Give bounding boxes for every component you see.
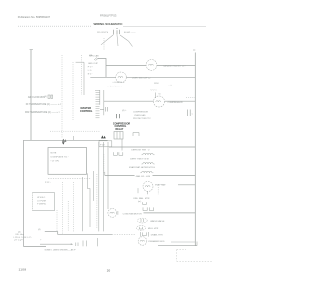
dashed sensor wire x62	[61, 55, 63, 138]
terminal block box	[99, 141, 112, 147]
wire below fan circle	[147, 191, 149, 194]
defrost section top line y147	[109, 146, 195, 148]
svg-text:RELAY: RELAY	[116, 128, 124, 131]
lamp L1 circle	[146, 60, 157, 71]
left drop wire x23.4	[22, 140, 24, 246]
dispenser box	[33, 193, 55, 211]
small cup mark	[143, 202, 147, 204]
svg-text:ICEMAKER MOD: ICEMAKER MOD	[148, 240, 165, 243]
svg-text:LIGHT SWITCH ·L2: LIGHT SWITCH ·L2	[132, 77, 151, 79]
mullion heater symbol	[136, 226, 145, 231]
wire y242 stub to rail	[171, 241, 195, 243]
wire line2 y77.3 left segment	[90, 76, 115, 78]
double cup marks	[143, 207, 154, 210]
right rail top tick	[193, 49, 195, 51]
control board pin ticks	[96, 93, 100, 118]
svg-text:FRE· FAN · MTR: FRE· FAN · MTR	[134, 197, 150, 200]
svg-text:P·12 ›: P·12 ›	[45, 182, 51, 184]
wire bundle solid x98.8	[98, 142, 100, 231]
tick left of fan	[137, 188, 139, 193]
wire x104.8	[104, 172, 106, 176]
evaporator heater coil	[140, 171, 153, 173]
svg-text:LO PUSH: LO PUSH	[37, 200, 46, 202]
user interface box	[48, 148, 87, 175]
dashed line under box	[48, 177, 91, 179]
wire bundle solid x87.5 with jog	[88, 173, 91, 227]
wire x122 down	[121, 139, 123, 151]
svg-text:OVERLOAD: OVERLOAD	[134, 114, 146, 117]
svg-text:(4): (4)	[45, 96, 48, 98]
svg-text:ICE · Aux: ICE · Aux	[15, 233, 23, 236]
dashed stub x103.9	[103, 154, 105, 174]
dashed sensor wire x73	[72, 62, 74, 120]
dashed wire at x104	[103, 38, 105, 50]
svg-text:· · ››: · · ››	[168, 85, 172, 87]
ice maker motor circle	[138, 237, 147, 246]
ground hatch symbol	[94, 58, 99, 61]
condenser fan tick	[117, 211, 119, 215]
svg-text:FRZ TEMPERATURE (2) —— ›› t: FRZ TEMPERATURE (2) —— ›› t	[25, 111, 60, 114]
svg-text:DEFR· TMST › B·M: DEFR· TMST › B·M	[130, 158, 148, 160]
svg-text:› CT OFL: › CT OFL	[51, 161, 60, 163]
svg-text:EVAP FAN›: EVAP FAN›	[155, 183, 166, 186]
wire bundle dashed x96.9	[96, 174, 98, 229]
svg-text:FRS6LF7FS3: FRS6LF7FS3	[100, 14, 117, 18]
wire arrow y244.2	[40, 243, 72, 245]
svg-text:DRAIN, HTR: DRAIN, HTR	[151, 234, 163, 237]
svg-text:GND CLIP: GND CLIP	[88, 63, 98, 65]
light switch circle	[116, 72, 127, 83]
svg-text:Publication No. 5995581107: Publication No. 5995581107	[18, 15, 51, 19]
svg-text:p•t ·e g•››: p•t ·e g•››	[15, 239, 24, 242]
wire bundle solid x93.6	[93, 171, 95, 201]
bottom right line y245.7	[158, 245, 197, 247]
wire line2 y77.3 right segment	[127, 76, 196, 78]
drain heater symbol	[140, 232, 148, 237]
svg-text:NOTE: NOTE	[51, 153, 57, 155]
wire y246.4 stub	[23, 245, 46, 247]
wire bundle solid x108	[107, 142, 109, 209]
connector arrows pair B	[101, 135, 106, 138]
wire bottom of left rail y140.3	[23, 139, 107, 141]
svg-text:60 HZ. ——: 60 HZ. ——	[124, 32, 136, 34]
header dotted separator line	[18, 25, 92, 27]
left rail vertical	[30, 50, 32, 141]
power cord wire middle	[117, 35, 118, 46]
defrost section mid line y175.5 right	[153, 175, 196, 177]
svg-text:›1 r: ›1 r	[158, 93, 161, 95]
wire x73.3 stub	[72, 136, 74, 140]
svg-text:115 VOLTS: 115 VOLTS	[97, 32, 109, 34]
svg-text:WATER VALVE: WATER VALVE	[150, 220, 165, 223]
right rail vertical	[194, 53, 196, 246]
control board vertical wire x99.8	[99, 90, 101, 105]
svg-text:(4): (4)	[38, 229, 41, 231]
svg-text:UI DISPLAYS ›On ›: UI DISPLAYS ›On ›	[51, 156, 69, 159]
svg-text:SOME I. LINES SHOWN — AS P·: SOME I. LINES SHOWN — AS P·	[45, 249, 77, 252]
run capacitor C1	[187, 110, 190, 117]
svg-text:(w) ·: (w) ·	[138, 201, 142, 203]
svg-text:s: s	[192, 114, 193, 116]
svg-text:1108: 1108	[19, 267, 27, 271]
wire bundle dashed x62.7	[62, 182, 64, 234]
bottom dashed continuation y234.3	[112, 233, 135, 235]
wire bundle solid x103.5	[103, 142, 105, 231]
defrost thermostat coil	[142, 162, 155, 164]
svg-text:FF TEMPERATURE (2) ——— ›› t: FF TEMPERATURE (2) ——— ›› t	[26, 103, 61, 106]
svg-text:DEFROST HTR · L›: DEFROST HTR · L›	[131, 149, 150, 151]
svg-text:› v v › v: › v v › v	[150, 90, 157, 92]
svg-text:· · › · · · › · · · · ·: · · › · · · › · · · · ·	[107, 86, 121, 88]
stub at x155.7	[155, 93, 157, 99]
svg-text:› FAN· ED · H·M: › FAN· ED · H·M	[135, 175, 151, 178]
bottom connector dip	[58, 232, 64, 235]
evap fan motor circle	[143, 181, 153, 191]
sensor row1 marks	[48, 95, 53, 98]
svg-text:P·1 ››: P·1 ››	[88, 67, 93, 69]
wire bundle dashed x73.7	[73, 182, 75, 231]
svg-text:GARAGE HEATER ·L1››: GARAGE HEATER ·L1››	[163, 65, 186, 68]
relay contact marks on compressor line	[100, 107, 108, 112]
wire line1 y65.5 right segment	[157, 65, 195, 67]
svg-text:COMPRESSOR: COMPRESSOR	[133, 112, 149, 114]
water valve solenoid	[137, 218, 147, 223]
svg-text:COND FAN MOTOR: COND FAN MOTOR	[123, 213, 143, 216]
right tick up x197	[196, 242, 198, 246]
svg-text:(4) ››: (4) ››	[122, 110, 127, 112]
svg-text:CONTROL: CONTROL	[80, 110, 93, 113]
wire line3 y101.2 right segment	[165, 100, 196, 102]
svg-text:P·13›: P·13›	[100, 144, 105, 146]
defrost heater coil	[142, 153, 155, 155]
svg-text:L·1 ›: L·1 ›	[88, 70, 92, 72]
compressor relay contact bars	[117, 114, 120, 118]
wire jog y62	[76, 61, 84, 63]
svg-text:›› LIGHTS ·2: ›› LIGHTS ·2	[113, 82, 126, 84]
wire line1 y65.5 left segment	[106, 65, 146, 67]
power plug P1 prongs	[113, 29, 119, 35]
small contact symbol right	[133, 133, 139, 137]
wire x84	[83, 62, 85, 95]
svg-text:WIRING SCHEMATIC: WIRING SCHEMATIC	[94, 22, 124, 26]
line y184.8 right	[178, 184, 195, 186]
left rail top tick	[30, 49, 34, 51]
svg-text:F DISPSL: F DISPSL	[37, 204, 47, 206]
condenser fan motor circle	[108, 209, 117, 218]
relay coil box	[114, 132, 123, 140]
tick into board	[95, 90, 100, 92]
connector stubs near y244	[76, 238, 98, 246]
defrost section mid line y175.5 left	[105, 175, 135, 177]
svg-text:PROTECTOR PTC: PROTECTOR PTC	[133, 118, 151, 120]
wire bundle dashed x68.2	[67, 201, 69, 231]
power cord wire left	[101, 35, 113, 45]
svg-text:W SOLO: W SOLO	[37, 197, 45, 199]
control board vertical wire x103.8	[103, 90, 105, 115]
optional dashed box bottom right	[177, 250, 213, 262]
svg-text:N·1 ›: N·1 ›	[88, 74, 93, 76]
svg-text:115V: 115V	[154, 83, 159, 85]
svg-text:EVAPORAT· AFTER HTR·E: EVAPORAT· AFTER HTR·E	[129, 166, 156, 169]
power cord wire right	[120, 35, 133, 47]
dash right of fan	[157, 187, 159, 194]
wire bundle dashed x57	[56, 210, 58, 231]
wire bundle solid x82.5	[82, 177, 84, 231]
bottom connector line y231.5	[45, 231, 58, 233]
wire y212.9 to rail	[144, 212, 196, 214]
connector arrows pair A	[62, 139, 66, 145]
compressor motor circle	[154, 96, 165, 107]
svg-text:AIR FLOW MON: AIR FLOW MON	[28, 96, 45, 99]
svg-text:20: 20	[107, 268, 111, 272]
double cup symbol	[114, 152, 123, 155]
wire line3 y101.2 compressor line left segment	[104, 100, 154, 102]
svg-text:(4): (4)	[18, 231, 21, 233]
dashed stub near right rail	[186, 97, 195, 99]
dashed line y131	[50, 130, 100, 132]
dashed sensor wire x81.5	[81, 55, 83, 95]
bottom connector line y234.3	[63, 233, 112, 235]
wire step from cord to line1	[98, 59, 107, 78]
svg-text:COMPRESSOR: COMPRESSOR	[168, 102, 184, 104]
svg-text:MULL HTR: MULL HTR	[148, 228, 159, 230]
